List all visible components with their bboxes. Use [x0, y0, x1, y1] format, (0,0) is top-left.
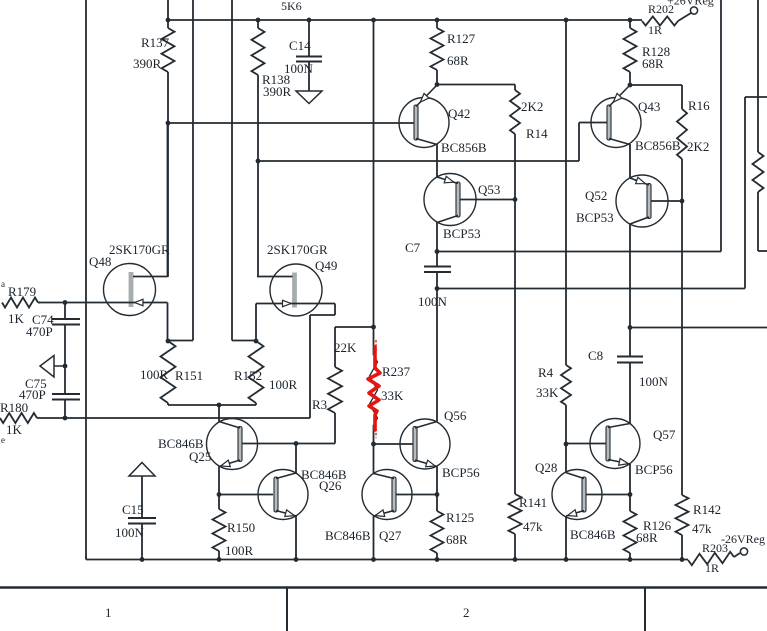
wire C14 to arrow — [308, 62, 310, 92]
svg-text:BC846B: BC846B — [325, 528, 371, 543]
resistor R14 2K2 — [510, 90, 520, 134]
svg-text:R180: R180 — [0, 400, 28, 415]
wire R3 bottom — [334, 413, 336, 444]
wire x758 to right edge — [757, 192, 759, 251]
svg-text:Q26: Q26 — [319, 478, 342, 493]
svg-text:-26VReg: -26VReg — [721, 532, 765, 546]
resistor R128 — [629, 20, 631, 28]
node C74 top — [63, 300, 68, 305]
node x258 y161 — [256, 159, 261, 164]
node x168 y123 — [166, 121, 171, 126]
svg-text:R142: R142 — [693, 502, 721, 517]
wire Q28 base — [586, 494, 630, 496]
resistor R150 — [218, 495, 220, 510]
svg-text:100R: 100R — [225, 543, 254, 558]
node bottom rail junctions — [140, 557, 145, 562]
svg-text:68R: 68R — [642, 56, 664, 71]
input arrow left — [40, 356, 54, 378]
wire Q53 base to x515 — [460, 199, 515, 201]
svg-text:BCP56: BCP56 — [635, 462, 673, 477]
arrow Q49 source — [283, 300, 292, 306]
svg-text:68R: 68R — [446, 532, 468, 547]
wire emitter node to R16 — [630, 84, 682, 86]
wire Q56 base — [374, 443, 416, 445]
wire C8 to Q57 collector — [629, 328, 631, 357]
node C7 top junction — [435, 249, 440, 254]
terminal -26VReg — [740, 548, 747, 555]
svg-text:BCP53: BCP53 — [443, 226, 481, 241]
node tail junction — [217, 403, 222, 408]
resistor R179 — [2, 298, 38, 308]
resistor R137 — [162, 28, 175, 72]
ground arrow below C14 — [296, 91, 322, 104]
svg-text:100N: 100N — [418, 294, 448, 309]
svg-text:Q42: Q42 — [448, 106, 470, 121]
resistor R3 22K — [328, 367, 342, 413]
resistor R138 — [257, 20, 259, 28]
svg-text:C8: C8 — [588, 348, 603, 363]
wire R4 to Q57 base node — [565, 405, 567, 444]
wire Q28 emitter down — [565, 516, 567, 560]
node Q53 base junction — [513, 197, 518, 202]
resistor R180 — [0, 413, 37, 423]
wire R16 to Q52 base node — [681, 159, 683, 201]
wire Q27 base — [396, 494, 437, 496]
frame bottom border — [0, 586, 767, 588]
resistor R152 — [249, 341, 264, 403]
wire emitter node to R14 — [437, 84, 515, 86]
wire R137 to Q42 base node — [167, 72, 169, 277]
resistor R141 — [509, 494, 522, 534]
transistor Q42 BC856B — [399, 98, 449, 148]
wire x232 to R152 node — [232, 340, 256, 342]
transistor Q25 BC846B — [207, 419, 258, 470]
capacitor C75 — [52, 393, 80, 395]
wire C7 plates — [436, 252, 438, 267]
svg-text:5K6: 5K6 — [281, 0, 302, 13]
node Q42 emitter junction — [435, 82, 440, 87]
wire R14 to Q53 base node — [514, 134, 516, 494]
jfet Q49 2SK170GR — [270, 264, 322, 316]
wire Q56 emitter down — [436, 467, 438, 495]
wire R137 top — [167, 0, 169, 28]
svg-text:R127: R127 — [447, 31, 476, 46]
node Q43 emitter junction — [628, 83, 633, 88]
svg-text:R152: R152 — [234, 368, 262, 383]
svg-text:Q43: Q43 — [638, 99, 660, 114]
wire Q26 base — [219, 494, 273, 496]
node R152 top — [254, 339, 259, 344]
wire Q43 collector to Q52 — [629, 144, 631, 178]
node R151 top — [166, 339, 171, 344]
node R237 top — [371, 325, 376, 330]
svg-text:2: 2 — [463, 605, 470, 620]
svg-text:R151: R151 — [175, 368, 203, 383]
wire 5K6 node to C14 — [308, 20, 310, 57]
svg-text:R179: R179 — [8, 284, 36, 299]
capacitor C74 — [52, 318, 80, 320]
svg-text:C15: C15 — [122, 502, 144, 517]
node Q57 base junction — [564, 442, 569, 447]
capacitor C7 — [424, 266, 451, 268]
svg-text:390R: 390R — [263, 84, 292, 99]
svg-text:Q52: Q52 — [585, 188, 607, 203]
svg-text:Q27: Q27 — [379, 528, 402, 543]
wire R179 to Q48 — [38, 302, 40, 304]
svg-text:68R: 68R — [636, 530, 658, 545]
svg-text:R125: R125 — [446, 510, 474, 525]
capacitor C15 — [141, 476, 143, 518]
wire C74 body — [64, 303, 66, 320]
transistor Q53 BCP53 — [424, 174, 476, 226]
svg-text:2K2: 2K2 — [687, 139, 709, 154]
transistor Q52 BCP53 — [616, 175, 668, 227]
node R180 junction — [63, 416, 68, 421]
svg-text:1: 1 — [105, 605, 112, 620]
wire R138 down to Q49 drain — [257, 75, 259, 277]
wire Q27 emitter down — [373, 516, 375, 560]
wire C75 body — [64, 366, 66, 394]
svg-text:BC856B: BC856B — [441, 140, 487, 155]
svg-text:100R: 100R — [269, 377, 298, 392]
node mid input — [63, 364, 68, 369]
svg-text:100N: 100N — [639, 374, 669, 389]
transistor Q28 BC846B — [552, 470, 602, 520]
resistor R126 — [629, 495, 631, 512]
wire Q49 gate corner — [334, 304, 336, 316]
svg-text:Q57: Q57 — [653, 427, 676, 442]
wire Q48 gate-source line — [38, 302, 168, 304]
wire Q53 collector to C7 — [436, 223, 438, 252]
wire left vertical bus — [85, 0, 87, 560]
node Q57 emitter junction — [628, 492, 633, 497]
wire x745 vertical — [744, 97, 746, 289]
svg-text:68R: 68R — [447, 53, 469, 68]
svg-text:R150: R150 — [227, 520, 255, 535]
wire y327 C8 to right edge — [630, 327, 767, 329]
svg-text:33K: 33K — [536, 385, 559, 400]
wire Q48 drain — [133, 276, 168, 278]
node top rail junctions — [166, 18, 171, 23]
wire Q28 collector up — [565, 444, 567, 473]
svg-text:100N: 100N — [115, 525, 145, 540]
svg-text:1R: 1R — [705, 561, 719, 575]
wire R203 to terminal — [734, 553, 740, 557]
wire x566 upper — [565, 20, 567, 365]
resistor R125 — [436, 495, 438, 512]
transistor Q26 BC846B — [258, 470, 308, 520]
svg-text:R16: R16 — [688, 98, 710, 113]
wire Q26 collector up — [295, 444, 297, 474]
svg-text:1K: 1K — [8, 311, 25, 326]
svg-text:Q56: Q56 — [444, 408, 467, 423]
jfet Q48 2SK170GR — [104, 264, 156, 316]
wire Q25 emitter down — [218, 467, 220, 495]
node Q25 emitter junction — [217, 492, 222, 497]
transistor Q43 BC856B — [591, 98, 641, 148]
wire bottom rail -26V — [86, 559, 688, 561]
svg-text:47k: 47k — [692, 521, 712, 536]
resistor R151 — [161, 341, 176, 403]
svg-text:Q48: Q48 — [89, 254, 111, 269]
svg-text:BC846B: BC846B — [570, 527, 616, 542]
svg-text:1R: 1R — [648, 23, 662, 37]
wire x193 to R151 node — [168, 340, 193, 342]
wire R180 to Q49 gate — [37, 417, 310, 419]
node R237 bottom — [371, 442, 376, 447]
svg-text:C7: C7 — [405, 240, 421, 255]
wire R202 to terminal — [678, 13, 691, 21]
resistor R203 — [688, 552, 734, 565]
svg-text:e: e — [1, 435, 5, 445]
svg-text:R14: R14 — [526, 126, 548, 141]
wire Q42 collector to Q53 — [436, 144, 438, 177]
wire Q49 source down — [255, 304, 257, 342]
wire Q52 base to x682 — [651, 200, 682, 202]
svg-text:a: a — [1, 279, 5, 289]
svg-text:Q25: Q25 — [189, 449, 211, 464]
svg-text:BCP53: BCP53 — [576, 210, 614, 225]
wire rail to R237 node — [373, 20, 375, 327]
resistor R16 — [677, 109, 687, 159]
terminal +26VReg — [690, 7, 697, 14]
svg-text:R237: R237 — [382, 364, 411, 379]
svg-text:22K: 22K — [334, 340, 357, 355]
resistor R237 red mark — [368, 347, 380, 430]
svg-text:2SK170GR: 2SK170GR — [109, 242, 170, 257]
svg-text:+26VReg: +26VReg — [667, 0, 714, 8]
power arrow above C15 — [129, 463, 155, 477]
svg-text:100R: 100R — [140, 367, 169, 382]
svg-text:BC856B: BC856B — [635, 138, 681, 153]
wire Q25 base line — [242, 443, 335, 445]
wire y251 C7 to x721 — [437, 251, 721, 253]
wire R128 to emitter node — [629, 72, 631, 85]
resistor R142 — [681, 201, 683, 495]
node Q27 base junction — [435, 492, 440, 497]
wire Q48 source down — [167, 303, 169, 342]
wire x758 vertical — [757, 0, 759, 152]
wire y288 C7 bottom to x745 — [437, 288, 745, 290]
wire Q25 collector — [218, 405, 220, 422]
wire R127 to emitter node — [436, 70, 438, 85]
resistor R127 — [436, 20, 438, 28]
svg-text:C14: C14 — [289, 38, 311, 53]
wire tail node — [167, 403, 169, 405]
svg-text:1K: 1K — [6, 422, 23, 437]
wire R3 top — [335, 326, 374, 328]
svg-text:Q53: Q53 — [478, 182, 500, 197]
resistor R202 — [642, 17, 678, 26]
wire Q27 collector up — [373, 444, 375, 474]
wire Q52 collector to C8 — [629, 224, 631, 328]
svg-text:33K: 33K — [381, 388, 404, 403]
svg-text:R141: R141 — [519, 495, 547, 510]
wire Q49 drain — [257, 276, 293, 278]
wire Q57 base — [566, 443, 606, 445]
wire y97 stub right edge — [745, 96, 767, 98]
wire vertical feed x193 — [192, 0, 194, 341]
wire Q42 base line — [168, 122, 414, 124]
svg-text:R137: R137 — [141, 35, 170, 50]
capacitor C8 — [617, 356, 643, 358]
capacitor C14 — [296, 56, 322, 58]
svg-text:R3: R3 — [312, 397, 327, 412]
transistor Q56 BCP56 — [400, 419, 450, 469]
svg-text:2SK170GR: 2SK170GR — [267, 242, 328, 257]
resistor R4 33K — [561, 365, 571, 405]
arrow Q48 source — [135, 299, 144, 305]
svg-text:Q49: Q49 — [315, 258, 337, 273]
wire Q57 emitter down — [629, 464, 631, 495]
resistor right edge — [753, 152, 764, 192]
wire y161 R138 to Q43 base — [258, 160, 579, 162]
wire top rail +26V — [167, 19, 642, 21]
transistor Q27 BC846B — [362, 470, 412, 520]
wire vertical feed x232 — [231, 0, 233, 341]
svg-text:R4: R4 — [538, 365, 554, 380]
resistor R237 printed — [370, 355, 378, 425]
wire Q49 gate-source line — [256, 303, 335, 305]
transistor Q57 BCP56 — [590, 419, 640, 469]
node C8 top junction — [628, 325, 633, 330]
wire R237 body — [373, 327, 375, 355]
wire x721 vertical — [720, 0, 722, 252]
svg-text:Q28: Q28 — [535, 460, 557, 475]
node Q25 base / Q26 collector — [294, 441, 299, 446]
node C7 bottom junction — [435, 286, 440, 291]
svg-text:390R: 390R — [133, 56, 162, 71]
wire Q26 emitter down — [295, 516, 297, 560]
svg-text:2K2: 2K2 — [521, 99, 543, 114]
svg-text:BCP56: BCP56 — [442, 465, 480, 480]
svg-text:47k: 47k — [523, 519, 543, 534]
wire Q56 collector up — [436, 289, 438, 422]
node Q52 base junction — [680, 199, 685, 204]
svg-text:470P: 470P — [26, 324, 53, 339]
